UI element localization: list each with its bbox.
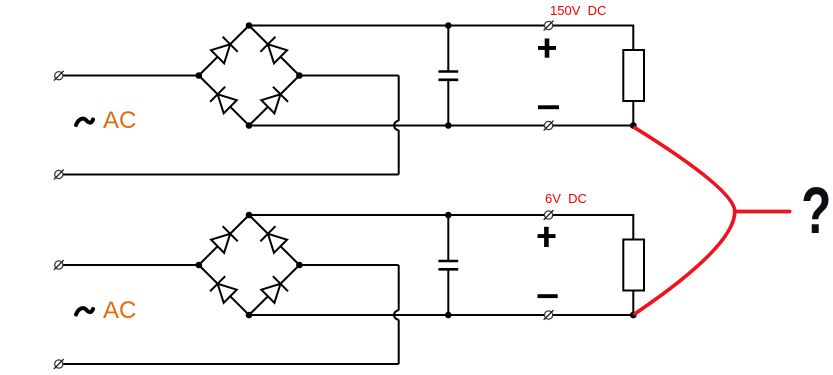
node bottom output junction: [630, 312, 637, 319]
resistor R2: [623, 240, 644, 291]
capacitor C1: [438, 26, 458, 126]
label AC bottom: [103, 297, 136, 325]
node bottom cap +: [445, 212, 452, 219]
terminal top AC input 1: [54, 71, 64, 81]
terminal bottom DC -: [544, 310, 554, 320]
node top bridge right: [296, 72, 303, 79]
polarity top minus: [538, 105, 559, 109]
node bottom bridge bottom: [246, 312, 253, 319]
capacitor C2: [438, 215, 458, 315]
wire red probe lead: [735, 210, 790, 214]
wire red probe lower curve: [635, 212, 735, 314]
node bottom bridge left: [196, 262, 203, 269]
wire bottom right-vertex to router: [299, 264, 398, 266]
node top output junction: [630, 122, 637, 129]
wire top positive rail: [249, 26, 633, 51]
wire bottom vertical router upper: [398, 265, 400, 310]
label 150V DC: [550, 4, 606, 17]
terminal top DC -: [544, 121, 554, 131]
terminal bottom DC +: [544, 210, 554, 220]
bridge B2 diamond: [199, 215, 300, 315]
wire top vertical router upper: [398, 76, 400, 121]
diode D8 lower-right: [260, 276, 288, 304]
diode D1 upper-left: [210, 37, 238, 65]
diode D3 lower-left: [210, 87, 238, 115]
node top cap +: [445, 22, 452, 29]
AC tilde bottom: [76, 308, 93, 314]
label AC top: [103, 107, 136, 135]
terminal bottom AC input 2: [54, 359, 64, 369]
wire top right-vertex to router: [299, 75, 398, 77]
wire R2 bottom lead: [632, 291, 634, 316]
node bottom bridge top: [246, 212, 253, 219]
node bottom cap -: [445, 312, 452, 319]
label 6V DC: [545, 192, 587, 205]
wire hop bottom: [394, 310, 399, 319]
node bottom bridge right: [296, 262, 303, 269]
wire top AC input 2: [63, 174, 399, 176]
resistor R1: [623, 50, 644, 101]
node top bridge left: [196, 72, 203, 79]
polarity bottom minus: [538, 294, 558, 298]
node top bridge top: [246, 22, 253, 29]
diode D5 upper-left: [210, 226, 238, 254]
diode D7 lower-left: [210, 276, 238, 304]
wire bottom vertical router lower: [398, 320, 400, 364]
wire top negative rail: [249, 125, 633, 127]
wire top vertical router lower: [398, 130, 400, 174]
wire top AC input 1: [63, 75, 199, 77]
polarity top plus: [538, 39, 556, 58]
polarity bottom plus: [538, 227, 556, 247]
terminal top DC +: [544, 21, 554, 31]
diode D2 upper-right: [260, 37, 288, 65]
bridge B1 diamond: [199, 26, 300, 126]
wire red probe upper curve: [635, 128, 735, 212]
wire bottom positive rail: [249, 215, 633, 240]
wire bottom negative rail: [249, 314, 633, 316]
wire R1 bottom lead: [632, 101, 634, 126]
label question mark: [801, 177, 831, 243]
diode D6 upper-right: [260, 226, 288, 254]
node top cap -: [445, 122, 452, 129]
wire bottom AC input 1: [63, 264, 199, 266]
node top bridge bottom: [246, 122, 253, 129]
wire hop top: [394, 121, 399, 130]
diode D4 lower-right: [260, 87, 288, 115]
terminal top AC input 2: [54, 170, 64, 180]
wire bottom AC input 2: [63, 363, 399, 365]
terminal bottom AC input 1: [54, 260, 64, 270]
AC tilde top: [76, 119, 93, 125]
